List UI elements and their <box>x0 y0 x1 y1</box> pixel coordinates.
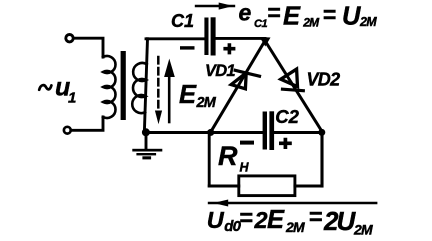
svg-text:=: = <box>309 204 323 230</box>
wire left diagonal <box>211 42 265 132</box>
wire top horizontal to C1 <box>146 37 204 40</box>
wire C1 to apex <box>216 37 265 40</box>
capacitor C2 plates <box>263 112 267 150</box>
svg-text:1: 1 <box>68 90 76 107</box>
label plus C1 <box>223 43 235 54</box>
wire right diagonal <box>266 42 323 132</box>
label ~ (ac source tilde) <box>39 85 51 90</box>
svg-text:2: 2 <box>254 207 268 233</box>
label plus C2 <box>279 138 292 149</box>
svg-text:R: R <box>218 141 238 171</box>
transformer core <box>121 51 126 120</box>
resistor RH body <box>239 176 295 196</box>
node apex junction <box>260 37 271 47</box>
wire primary top <box>74 38 104 57</box>
svg-text:VD2: VD2 <box>307 70 341 90</box>
capacitor C1 plates <box>204 18 208 56</box>
wire left vertical to load <box>208 132 211 187</box>
svg-text:U: U <box>342 2 361 30</box>
solid arrow E2M (up) <box>168 76 171 122</box>
primary winding L1 <box>103 56 116 118</box>
ground symbol <box>145 133 148 150</box>
svg-text:C1: C1 <box>171 11 194 31</box>
arrow over C1 (right) <box>196 5 234 7</box>
svg-text:2M: 2M <box>353 221 373 237</box>
label minus C2 <box>240 141 254 145</box>
svg-text:H: H <box>240 161 250 175</box>
svg-text:=: = <box>267 0 280 26</box>
svg-text:2M: 2M <box>285 219 305 235</box>
svg-text:U: U <box>207 207 225 233</box>
svg-text:VD1: VD1 <box>205 62 235 80</box>
wire secondary right vertical <box>144 39 147 131</box>
diode VD2 <box>281 69 304 91</box>
wire right vertical to load <box>320 132 323 187</box>
wire load right <box>295 185 322 188</box>
wire bottom horizontal left <box>146 131 262 134</box>
secondary winding loops <box>132 63 146 113</box>
junction node ground <box>142 128 150 136</box>
svg-text:=: = <box>239 205 253 231</box>
junction node right <box>318 129 325 136</box>
wire primary bottom <box>72 117 104 130</box>
junction node left <box>207 129 214 136</box>
svg-text:2M: 2M <box>359 15 377 29</box>
input terminal bottom <box>64 127 71 134</box>
dashed arrow u2 (down) <box>157 57 160 109</box>
svg-text:E: E <box>267 206 285 234</box>
svg-text:=: = <box>323 2 336 28</box>
svg-text:C1: C1 <box>254 18 268 30</box>
wire load left <box>209 185 239 188</box>
svg-text:E: E <box>179 81 197 109</box>
input terminal top <box>66 35 73 42</box>
label minus C1 <box>180 46 195 49</box>
svg-text:2M: 2M <box>196 95 217 111</box>
svg-text:e: e <box>239 0 252 25</box>
svg-text:E: E <box>283 2 301 30</box>
wire C2 right to node <box>274 131 322 134</box>
diode VD1 <box>231 70 259 89</box>
svg-text:2M: 2M <box>302 15 320 29</box>
svg-text:C2: C2 <box>275 106 299 127</box>
arrow Ud0 (left) <box>209 202 376 204</box>
